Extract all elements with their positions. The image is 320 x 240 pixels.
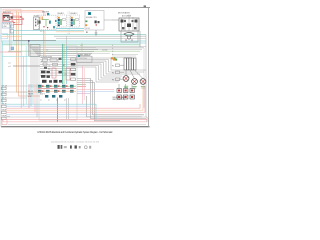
svg-text:E1 E2: E1 E2 [86,28,90,30]
svg-text:p2: p2 [48,99,50,101]
svg-text:P3: P3 [112,79,114,81]
svg-text:P1 P2 P3 N1: P1 P2 P3 N1 [78,58,87,60]
svg-text:RELAY 1: RELAY 1 [58,12,65,15]
svg-text:p3: p3 [56,99,58,101]
svg-text:D4: D4 [65,74,67,76]
svg-text:p1: p1 [40,99,42,101]
svg-text:FUSE: FUSE [34,15,38,17]
svg-text:h-3: h-3 [46,50,48,52]
svg-text:P2: P2 [112,72,114,74]
svg-text:P1: P1 [112,65,114,67]
svg-text:MOTOR ASSY: MOTOR ASSY [118,12,131,15]
svg-text:HITACHI ZAXIS Electrical and F: HITACHI ZAXIS Electrical and Functional … [38,130,114,134]
svg-text:RELAY 2: RELAY 2 [71,12,78,15]
svg-text:sw2: sw2 [8,66,11,68]
svg-text:sw1: sw1 [8,63,11,65]
svg-text:UNIT: UNIT [28,96,32,98]
svg-text:UNIT (4-SPOOL): UNIT (4-SPOOL) [113,99,126,101]
svg-text:B2: B2 [49,65,51,67]
svg-text:CONTROLLER: CONTROLLER [41,57,53,59]
svg-text:Download the full resolution s: Download the full resolution schematic f… [51,141,100,144]
svg-text:PRESS SENSOR: PRESS SENSOR [78,55,92,57]
svg-text:BATTERY: BATTERY [3,11,12,14]
svg-text:c-12: c-12 [80,45,83,47]
svg-text:KEY SW: KEY SW [42,11,49,13]
svg-text:ACTUATOR: ACTUATOR [122,15,132,18]
svg-text:ENGINE CTRL: ENGINE CTRL [86,17,97,19]
svg-text:C3: C3 [57,61,59,63]
svg-text:p4: p4 [64,99,66,101]
